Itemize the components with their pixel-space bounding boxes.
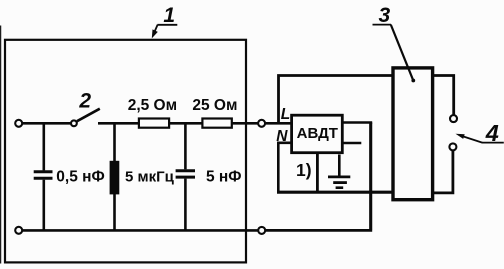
wire: input to switch <box>23 122 71 125</box>
label 3 with leader <box>373 4 416 82</box>
box 1 (filter enclosure) <box>5 40 246 263</box>
wire: L top loop to box 3 <box>279 76 394 123</box>
svg-text:2: 2 <box>78 90 91 113</box>
svg-text:2,5 Ом: 2,5 Ом <box>128 97 177 114</box>
wire: terminal to АВДТ L input <box>266 122 291 125</box>
svg-text:1: 1 <box>163 4 175 27</box>
ground <box>328 155 350 188</box>
bottom wire <box>23 229 258 232</box>
wire: N bottom bar to box 3 <box>277 191 394 194</box>
svg-text:5 нФ: 5 нФ <box>206 168 242 185</box>
terminal 4 lower <box>449 143 456 150</box>
wire: N from АВДТ down <box>278 143 291 192</box>
wire: R2 through box edge to output terminal <box>232 122 258 125</box>
terminal (bottom-left input) <box>15 227 22 234</box>
wire: lower terminal 4 to box 3 <box>433 151 453 193</box>
label 1 with leader arrow <box>152 4 178 38</box>
resistor 2,5 Ом <box>128 97 177 128</box>
svg-text:АВДТ: АВДТ <box>297 125 338 142</box>
terminal (bottom-right output) <box>258 227 265 234</box>
wire: box 3 to upper terminal 4 <box>433 76 454 115</box>
wire: switch to resistor R1 <box>98 122 139 125</box>
label 4 with leader arrow <box>456 120 504 146</box>
svg-text:0,5 нФ: 0,5 нФ <box>56 168 104 185</box>
wire: АВДТ bottom to N bar <box>316 153 319 192</box>
svg-text:L: L <box>281 106 290 123</box>
svg-text:1): 1) <box>296 160 312 180</box>
capacitor 0,5 нФ <box>34 123 105 230</box>
terminal 4 upper <box>450 115 457 122</box>
capacitor 5 нФ <box>176 123 242 230</box>
wire: vertical riser (АВДТ output down to bottom wire) <box>369 123 372 230</box>
svg-text:25 Ом: 25 Ом <box>192 97 237 114</box>
terminal (top-left input) <box>15 120 22 127</box>
page edge line (left scan border) <box>0 26 2 264</box>
switch 2 <box>71 109 100 127</box>
svg-text:N: N <box>276 128 288 145</box>
terminal (top-right output) <box>258 120 265 127</box>
box 3 (load unit) <box>393 68 433 200</box>
wire: АВДТ right stub <box>342 142 361 145</box>
wire: bottom output to riser <box>266 229 372 232</box>
inductor 5 мкГц <box>110 123 175 230</box>
resistor 25 Ом <box>192 97 237 128</box>
wire: АВДТ top output to riser <box>342 121 372 124</box>
АВДТ unit U1 <box>292 115 343 153</box>
wire: R1 to R2 <box>170 122 202 125</box>
svg-text:5 мкГц: 5 мкГц <box>125 168 175 185</box>
